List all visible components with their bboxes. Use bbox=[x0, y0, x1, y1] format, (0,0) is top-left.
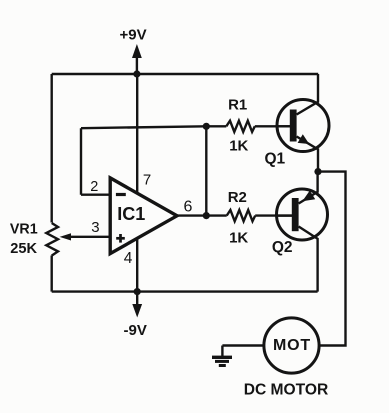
svg-text:2: 2 bbox=[90, 179, 98, 195]
svg-text:1K: 1K bbox=[229, 137, 248, 154]
svg-text:DC MOTOR: DC MOTOR bbox=[244, 382, 329, 399]
svg-text:4: 4 bbox=[124, 250, 133, 267]
svg-text:R2: R2 bbox=[228, 189, 247, 206]
svg-text:+9V: +9V bbox=[120, 26, 147, 43]
svg-text:1K: 1K bbox=[229, 230, 248, 247]
svg-text:IC1: IC1 bbox=[117, 204, 145, 224]
svg-text:VR1: VR1 bbox=[10, 221, 38, 237]
svg-text:25K: 25K bbox=[10, 241, 37, 257]
svg-text:R1: R1 bbox=[228, 97, 247, 114]
svg-text:-9V: -9V bbox=[124, 322, 147, 339]
svg-text:6: 6 bbox=[184, 198, 193, 215]
svg-text:3: 3 bbox=[91, 219, 99, 236]
svg-text:Q2: Q2 bbox=[272, 239, 293, 256]
svg-text:Q1: Q1 bbox=[264, 151, 285, 168]
svg-text:MOT: MOT bbox=[273, 337, 311, 354]
svg-text:7: 7 bbox=[143, 172, 151, 189]
